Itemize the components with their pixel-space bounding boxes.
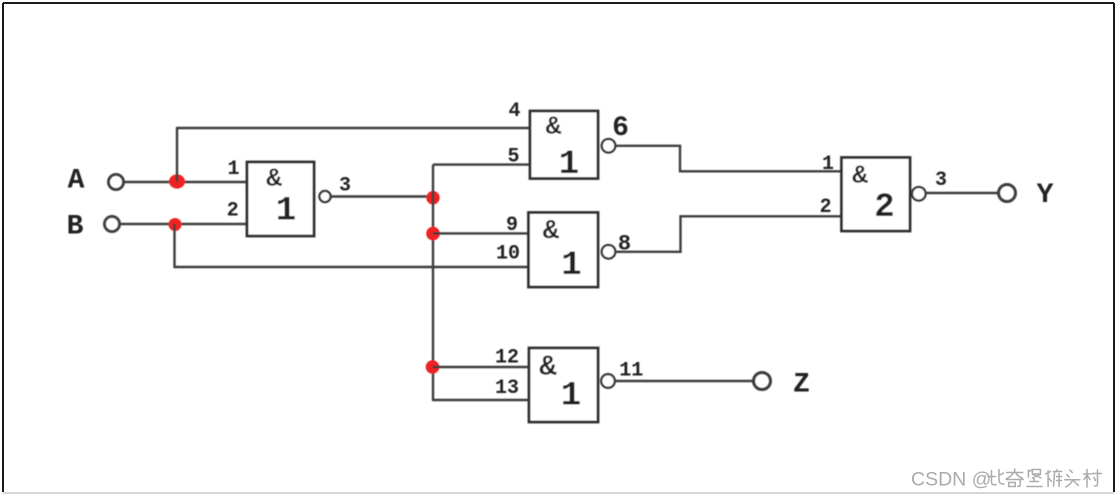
wire node Y [926,192,999,194]
svg-text:&: & [852,160,868,190]
wire node 8 to gate G5 pin 2 [616,216,842,252]
NAND gate G5 [842,158,911,232]
NAND gate G1 [247,162,314,236]
svg-text:2: 2 [874,189,894,227]
wire net A to gate G2 pin 4 [176,127,531,129]
inverter bubble G1 output [319,191,330,202]
svg-text:1: 1 [276,192,296,230]
junction on net B [169,218,182,231]
wire node 11 to terminal Z [615,380,754,382]
junction pin 12 tap [426,360,440,374]
svg-text:4: 4 [508,100,520,123]
svg-text:2: 2 [820,196,832,219]
wire bus to gate G4 pin 13 [432,399,530,401]
inverter bubble G4 output [601,374,615,388]
svg-text:&: & [546,111,562,141]
svg-text:10: 10 [496,242,520,265]
svg-text:1: 1 [227,158,239,181]
svg-text:CSDN @: CSDN @ [911,469,991,491]
output terminal Z [754,369,810,400]
wire bus to gate G4 pin 12 [433,366,531,368]
svg-text:3: 3 [339,174,351,197]
NAND gate G3 [529,213,599,288]
svg-text:&: & [543,217,560,247]
wire net B vertical drop [173,224,175,267]
svg-text:B: B [67,211,84,242]
output terminal Y [999,180,1054,211]
svg-text:A: A [68,165,85,196]
wire bus to gate G3 pin 9 [433,232,530,234]
svg-text:2: 2 [227,200,239,223]
input terminal B [67,211,120,242]
svg-text:&: & [266,164,282,194]
junction node 3 on bus [426,191,439,204]
wire bus to gate G2 pin 5 [433,163,531,165]
wire net B to gate G3 pin 10 [174,266,530,268]
wire node 6 to gate G5 pin 1 [616,146,842,172]
inverter bubble G5 output [912,187,926,201]
svg-text:3: 3 [935,169,947,192]
watermark CJK glyphs [988,469,1102,487]
input terminal A [68,165,124,196]
NAND gate G2 [530,111,598,184]
svg-text:Y: Y [1037,180,1054,211]
wire A to gate G1 pin 1 [124,181,248,183]
NAND gate G4 [529,348,598,422]
inverter bubble G3 output [602,245,616,259]
svg-text:1: 1 [561,378,581,416]
svg-text:1: 1 [561,247,581,285]
svg-text:5: 5 [507,145,519,168]
inverter bubble G2 output [602,139,616,153]
wire vertical bus node 3 [432,165,434,400]
junction on net A [169,174,185,188]
wire node 3 to vertical bus [331,195,434,197]
svg-text:12: 12 [495,346,519,369]
svg-text:11: 11 [619,359,643,382]
wire net A vertical riser [176,128,178,182]
svg-text:13: 13 [495,377,519,400]
svg-text:1: 1 [822,153,834,176]
svg-text:&: & [539,351,557,384]
svg-text:6: 6 [612,113,629,144]
svg-text:Z: Z [793,369,810,400]
wire B to gate G1 pin 2 [120,223,248,225]
svg-text:1: 1 [559,146,579,184]
svg-text:9: 9 [506,214,518,237]
junction pin 9 tap [426,227,440,241]
